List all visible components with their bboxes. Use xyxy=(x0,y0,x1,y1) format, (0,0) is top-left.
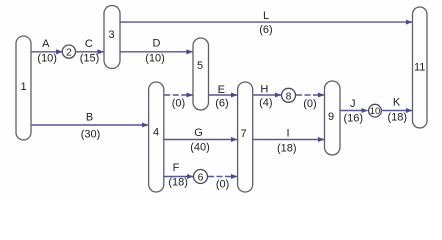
arrow L xyxy=(120,21,412,23)
arrow J xyxy=(340,110,367,112)
label I (18) xyxy=(277,128,297,155)
svg-text:7: 7 xyxy=(240,128,246,140)
svg-text:D: D xyxy=(153,38,161,50)
node 4 xyxy=(149,82,164,192)
event circle 6 xyxy=(194,170,208,184)
svg-text:(18): (18) xyxy=(388,112,408,124)
node 3 xyxy=(104,6,120,69)
arrow A xyxy=(32,51,63,53)
svg-text:F: F xyxy=(173,162,180,174)
arrow G xyxy=(164,139,237,141)
label C (15) xyxy=(80,38,100,65)
label (0) dummy 6-7 xyxy=(216,179,229,191)
svg-text:8: 8 xyxy=(286,90,292,102)
svg-text:(0): (0) xyxy=(172,98,185,110)
svg-text:9: 9 xyxy=(328,111,334,123)
label B (30) xyxy=(81,112,101,141)
node 1 xyxy=(16,36,31,140)
svg-text:(6): (6) xyxy=(215,98,228,110)
svg-text:E: E xyxy=(218,84,225,96)
svg-text:1: 1 xyxy=(20,81,26,93)
svg-text:(18): (18) xyxy=(168,177,188,189)
arrow K xyxy=(381,110,412,112)
svg-text:G: G xyxy=(194,127,203,139)
label K (18) xyxy=(388,97,408,124)
arrow D xyxy=(120,51,192,53)
event circle 2 xyxy=(62,45,75,59)
svg-text:(4): (4) xyxy=(259,97,272,109)
dashed dummy arrow 6-7 xyxy=(208,176,237,178)
node 11 xyxy=(413,7,428,128)
label G (40) xyxy=(190,127,210,154)
svg-text:C: C xyxy=(85,38,93,50)
label L (6) xyxy=(259,10,272,36)
svg-text:(16): (16) xyxy=(344,113,364,125)
label D (10) xyxy=(145,38,165,65)
arrow E xyxy=(209,94,237,96)
svg-text:(30): (30) xyxy=(81,129,101,141)
label J (16) xyxy=(344,98,364,125)
svg-text:H: H xyxy=(260,84,268,96)
node 7 xyxy=(238,82,253,192)
label E (6) xyxy=(215,84,228,110)
svg-text:10: 10 xyxy=(370,106,381,117)
event circle 8 xyxy=(282,88,296,102)
arrow F xyxy=(164,176,193,178)
svg-text:(0): (0) xyxy=(303,98,316,110)
dashed dummy arrow 4-5 xyxy=(164,94,192,96)
svg-text:2: 2 xyxy=(66,47,72,59)
label H (4) xyxy=(259,84,272,110)
svg-text:(10): (10) xyxy=(37,53,57,65)
event circle 10 xyxy=(369,104,382,117)
svg-text:B: B xyxy=(86,112,93,124)
label F (18) xyxy=(168,162,188,189)
node 5 xyxy=(193,38,209,110)
svg-text:A: A xyxy=(42,38,50,50)
arrow I xyxy=(253,139,324,141)
svg-text:(6): (6) xyxy=(259,24,272,36)
svg-text:(10): (10) xyxy=(145,53,165,65)
arrow C xyxy=(76,51,104,53)
svg-text:L: L xyxy=(263,10,269,22)
dashed dummy arrow 8-9 xyxy=(296,94,324,96)
svg-text:(0): (0) xyxy=(216,179,229,191)
svg-text:6: 6 xyxy=(198,172,204,184)
label (0) dummy 8-9 xyxy=(303,98,316,110)
svg-text:K: K xyxy=(393,97,401,109)
label A (10) xyxy=(37,38,57,65)
svg-text:11: 11 xyxy=(414,62,425,74)
arrow H xyxy=(253,94,281,96)
svg-text:I: I xyxy=(286,128,289,140)
svg-text:(40): (40) xyxy=(190,142,210,154)
arrow B xyxy=(32,124,148,126)
svg-text:3: 3 xyxy=(108,29,114,41)
svg-text:(18): (18) xyxy=(277,143,297,155)
svg-text:4: 4 xyxy=(153,127,159,139)
label (0) dummy 4-5 xyxy=(172,98,185,110)
svg-text:(15): (15) xyxy=(80,53,100,65)
node 9 xyxy=(325,81,341,155)
svg-text:5: 5 xyxy=(197,60,203,72)
svg-text:J: J xyxy=(350,98,356,110)
